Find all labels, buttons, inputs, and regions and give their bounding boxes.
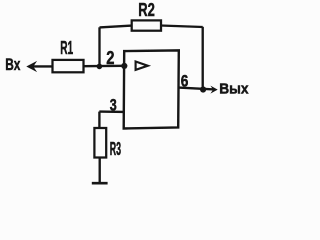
svg-text:Вх: Вх xyxy=(5,55,20,74)
svg-text:2: 2 xyxy=(106,47,114,68)
svg-text:3: 3 xyxy=(110,97,117,115)
svg-text:R3: R3 xyxy=(110,139,121,159)
svg-text:Вых: Вых xyxy=(219,81,248,97)
svg-text:R2: R2 xyxy=(138,0,155,20)
svg-text:R1: R1 xyxy=(60,38,73,58)
svg-text:6: 6 xyxy=(181,73,189,91)
